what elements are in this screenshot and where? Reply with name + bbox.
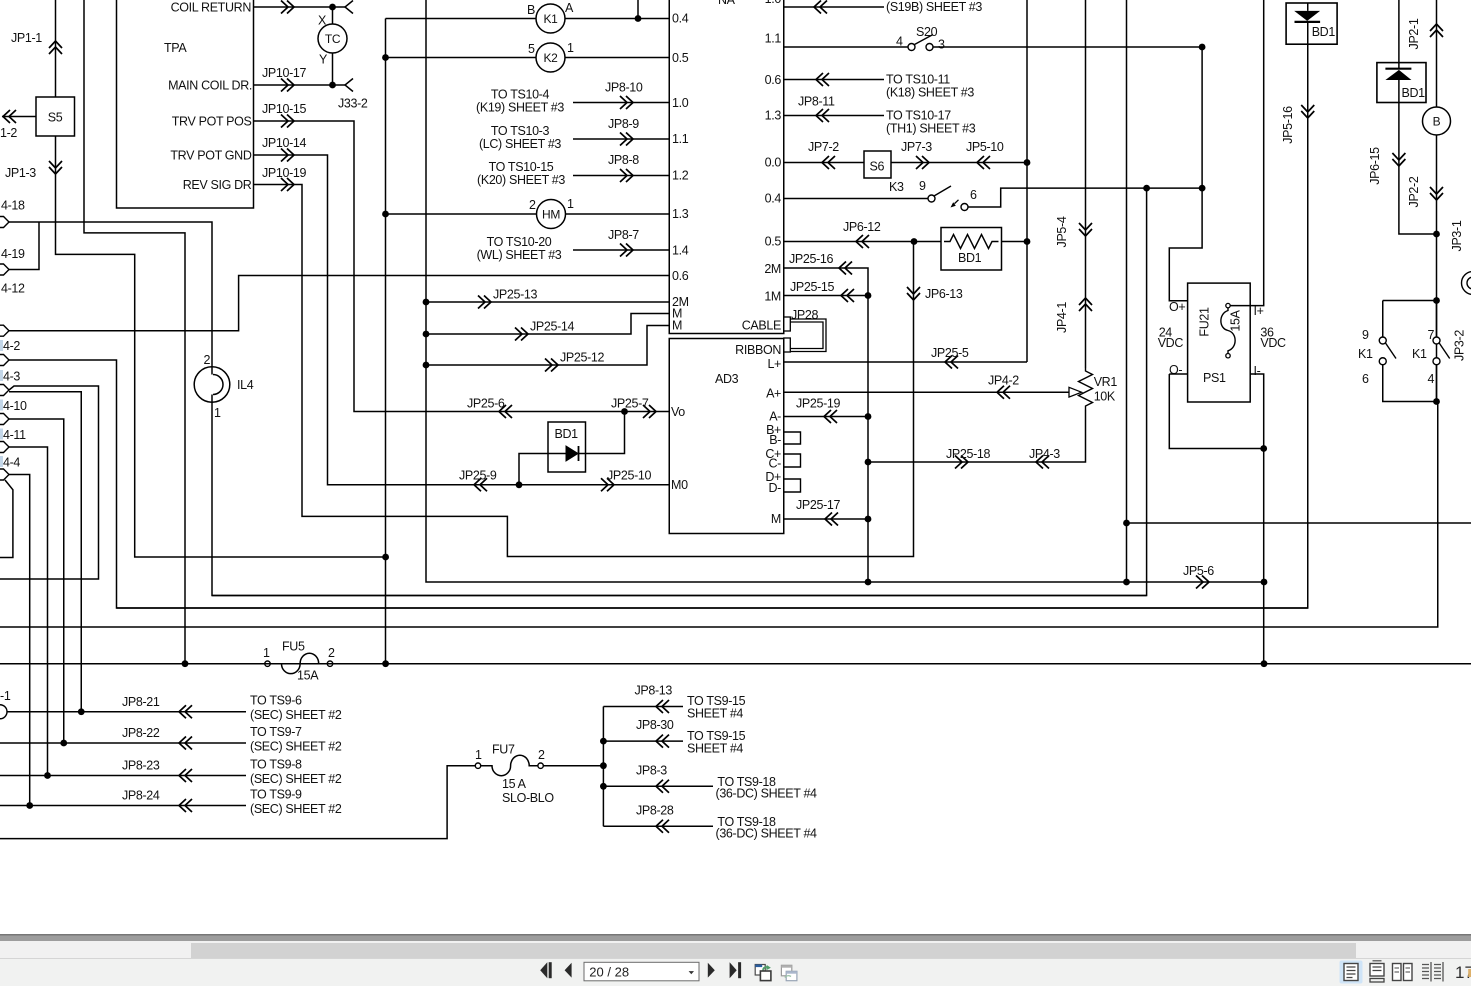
wire I+ to 36V line <box>1230 0 1264 306</box>
warning fragment <box>1468 969 1471 977</box>
svg-text:B: B <box>527 3 535 17</box>
svg-text:BD1: BD1 <box>555 427 579 441</box>
connector JP28 cable <box>784 317 826 352</box>
connector arrow S19B row <box>814 1 827 14</box>
wire bus 523 row <box>1127 522 1471 524</box>
node bus 523 junction <box>1123 520 1130 527</box>
wire 4-18 net to IL4 and K3 bus <box>9 222 212 367</box>
connector arrow JP4-2 <box>997 386 1010 399</box>
wire JP8-3 row <box>603 785 713 787</box>
switch S5 box <box>36 97 75 136</box>
layout icon two pages <box>1393 964 1413 981</box>
svg-text:M0: M0 <box>671 478 688 492</box>
svg-text:FU5: FU5 <box>282 640 305 654</box>
wire O- stub <box>1169 373 1187 375</box>
wire row 0.5 to BD1 resistor <box>784 241 941 243</box>
wire row 2M JP25-16 <box>784 268 868 296</box>
connector arrow JP25-13 <box>478 296 491 309</box>
node K1 top junction <box>635 15 642 22</box>
connector pin 4-2 <box>0 325 9 336</box>
connector pin 4-4 <box>0 442 9 453</box>
component B circle <box>1423 107 1451 135</box>
svg-text:1: 1 <box>214 406 221 420</box>
svg-text:X: X <box>318 14 327 28</box>
svg-text:1.1: 1.1 <box>765 32 782 46</box>
switch S20 <box>908 35 933 51</box>
connector arrow JP1-2 <box>3 110 16 123</box>
svg-text:M: M <box>672 319 682 333</box>
wire JP8 block vertical <box>602 707 604 827</box>
svg-text:HM: HM <box>542 207 560 221</box>
wire JP3 ladder vertical <box>1436 234 1438 402</box>
wire 4-3 net to JP5-16 bus <box>9 44 1308 608</box>
lamp IL4 <box>194 367 230 403</box>
wire BD1 left leg <box>519 454 548 485</box>
connector pin 4-11 <box>0 414 9 425</box>
svg-text:0.4: 0.4 <box>672 12 689 26</box>
wire 4-19 bridge to 4-18 <box>9 222 39 270</box>
svg-text:(SEC) SHEET #2: (SEC) SHEET #2 <box>250 740 342 754</box>
wire row 0.0 to S6 <box>784 162 864 164</box>
node JP25-19 junction <box>865 413 872 420</box>
svg-text:K1: K1 <box>1412 347 1427 361</box>
svg-text:0.0: 0.0 <box>765 156 782 170</box>
svg-text:JP5-6: JP5-6 <box>1183 564 1214 578</box>
svg-text:JP8-22: JP8-22 <box>122 726 160 740</box>
wire vertical 1126 line <box>1126 0 1128 582</box>
node JP8-24 junction <box>26 802 33 809</box>
svg-text:S6: S6 <box>870 160 885 174</box>
svg-text:VDC: VDC <box>1158 336 1184 350</box>
connector arrow JP25-10 <box>601 478 614 491</box>
svg-text:S5: S5 <box>48 111 63 125</box>
connector arrow JP5-4 <box>1079 223 1092 236</box>
svg-text:JP25-17: JP25-17 <box>796 498 841 512</box>
node HM row junction <box>382 211 389 218</box>
connector arrow JP25-9 <box>474 478 487 491</box>
node FU5 bus left junction <box>182 660 189 667</box>
wire row 0.6 TS10-11 <box>784 79 884 81</box>
svg-text:(TH1) SHEET #3: (TH1) SHEET #3 <box>886 122 976 136</box>
node JP25-14 junction <box>423 331 430 338</box>
svg-text:D-: D- <box>769 481 782 495</box>
node S5-bus junction at K-line <box>382 554 389 561</box>
svg-text:1.2: 1.2 <box>672 169 689 183</box>
svg-text:JP3-2: JP3-2 <box>1453 330 1467 361</box>
toolbar previous page button <box>565 963 572 978</box>
svg-text:K2: K2 <box>544 51 559 65</box>
svg-text:(36-DC) SHEET #4: (36-DC) SHEET #4 <box>716 827 818 841</box>
svg-text:JP10-19: JP10-19 <box>262 166 307 180</box>
connector arrow JP8-22 <box>179 737 192 750</box>
node K1 ladder top <box>1433 297 1440 304</box>
svg-text:JP5-16: JP5-16 <box>1281 106 1295 144</box>
wire JP25-18 row to VR1 bottom <box>868 410 1086 463</box>
connector arrow JP25-6 <box>499 405 512 418</box>
svg-text:(WL) SHEET #3: (WL) SHEET #3 <box>477 248 562 262</box>
svg-text:JP25-9: JP25-9 <box>459 469 497 483</box>
svg-text:4-19: 4-19 <box>1 247 25 261</box>
svg-text:TO TS10-17: TO TS10-17 <box>886 109 951 123</box>
svg-text:O-: O- <box>1169 363 1182 377</box>
svg-text:FU21: FU21 <box>1198 307 1212 337</box>
svg-text:7: 7 <box>1428 328 1435 342</box>
wire bus to K1 contacts <box>0 402 1438 628</box>
svg-text:TO TS10-15: TO TS10-15 <box>489 160 554 174</box>
svg-text:(SEC) SHEET #2: (SEC) SHEET #2 <box>250 772 342 786</box>
diode BD1 small box <box>548 422 586 472</box>
wire row 1.2 JP8-8 <box>573 175 669 177</box>
svg-text:B-: B- <box>769 433 781 447</box>
connector pin 4-18 <box>0 217 9 228</box>
svg-text:TO TS10-20: TO TS10-20 <box>487 235 552 249</box>
connector arrow JP25-18 <box>955 456 968 469</box>
wire JP2-1 line <box>1436 0 1438 107</box>
connector arrow JP5-16 <box>1301 105 1314 118</box>
connector arrow JP25-7 <box>643 405 656 418</box>
wire L+ row JP25-5 <box>784 361 1027 363</box>
wire 4-2 to box row 0.6 <box>9 276 669 331</box>
svg-text:JP10-15: JP10-15 <box>262 102 307 116</box>
wire K1 to box <box>565 18 669 20</box>
svg-text:JP5-4: JP5-4 <box>1055 216 1069 247</box>
wire JP2 line to O+ <box>1169 47 1202 301</box>
wire bus K3 branch <box>212 595 1147 597</box>
connector pin -1 circle <box>0 705 7 719</box>
connector arrow JP8-24 <box>179 799 192 812</box>
svg-text:JP8-7: JP8-7 <box>608 228 639 242</box>
svg-text:JP25-12: JP25-12 <box>560 351 605 365</box>
svg-text:SHEET #4: SHEET #4 <box>687 707 743 721</box>
svg-text:JP10-17: JP10-17 <box>262 66 307 80</box>
svg-text:JP25-7: JP25-7 <box>611 397 649 411</box>
svg-text:20 / 28: 20 / 28 <box>589 965 629 980</box>
wire row 0.4 to K3 <box>784 198 928 200</box>
svg-text:0.5: 0.5 <box>672 51 689 65</box>
wire main left vertical bus <box>385 19 387 664</box>
layout icon continuous <box>1370 961 1384 982</box>
wire B to JP2-2 <box>1436 135 1438 234</box>
svg-text:JP7-3: JP7-3 <box>901 140 932 154</box>
connector arrow JP6-13 <box>907 287 920 300</box>
node FU5 bus mid junction <box>382 660 389 667</box>
node TC Y junction <box>329 82 336 89</box>
relay contact K1 right <box>1433 337 1450 365</box>
wire 4-10 upper branch exits left <box>0 386 99 579</box>
svg-text:15A: 15A <box>297 669 319 683</box>
svg-text:(K19) SHEET #3: (K19) SHEET #3 <box>476 101 564 115</box>
svg-text:(SEC) SHEET #2: (SEC) SHEET #2 <box>250 708 342 722</box>
fuse FU7 <box>475 755 543 776</box>
svg-text:Vo: Vo <box>671 405 685 419</box>
wire TC Y lead <box>332 53 334 85</box>
svg-text:4-18: 4-18 <box>1 199 25 213</box>
connector arrow JP10-17 <box>281 79 294 92</box>
connector J33 pin chevron top <box>345 1 353 14</box>
node JP25-18 junction <box>865 459 872 466</box>
svg-text:10K: 10K <box>1094 390 1116 404</box>
svg-text:9: 9 <box>1362 328 1369 342</box>
svg-text:2: 2 <box>328 646 335 660</box>
svg-text:IL4: IL4 <box>237 378 254 392</box>
node JP8-30 junction <box>600 738 607 745</box>
wire TRV POT POS net to JP25-6 row <box>254 121 670 412</box>
jumper C+ C- <box>784 454 801 467</box>
wire O- down to I- node <box>1169 374 1263 449</box>
connector arrow JP25-5 <box>945 356 958 369</box>
svg-text:JP8-13: JP8-13 <box>635 684 673 698</box>
wire S5 to JP1-2 <box>2 116 36 118</box>
wire JP8-24 row <box>0 805 246 807</box>
component TC coil <box>318 24 347 53</box>
svg-text:JP25-18: JP25-18 <box>946 447 991 461</box>
toolbar previous view icon <box>755 965 771 981</box>
node BD1 diode branch <box>516 481 523 488</box>
scrollbar track <box>0 941 1471 958</box>
svg-text:JP25-13: JP25-13 <box>493 288 538 302</box>
svg-text:JP28: JP28 <box>791 308 818 322</box>
wire S20 row left <box>784 46 908 48</box>
svg-text:1.1: 1.1 <box>672 132 689 146</box>
svg-text:4-4: 4-4 <box>3 456 20 470</box>
toolbar background <box>0 958 1471 986</box>
wire FU7 feed <box>0 766 475 839</box>
wire HM row <box>386 213 537 215</box>
svg-text:BD1: BD1 <box>1312 25 1336 39</box>
power supply PS1 box <box>1188 283 1251 402</box>
node FU5 bus right junction <box>1261 660 1268 667</box>
svg-text:BD1: BD1 <box>1402 86 1426 100</box>
svg-text:4-3: 4-3 <box>3 370 20 384</box>
node JP25-15 junction <box>865 292 872 299</box>
svg-text:JP2-2: JP2-2 <box>1407 176 1421 207</box>
wire JP6-15 above BD1 <box>1398 0 1400 63</box>
svg-text:JP7-2: JP7-2 <box>808 140 839 154</box>
svg-text:REV SIG DR: REV SIG DR <box>183 178 252 192</box>
svg-text:1.0: 1.0 <box>765 0 782 6</box>
svg-text:AD3: AD3 <box>715 372 739 386</box>
connector arrow JP10-19 <box>281 178 294 191</box>
svg-text:2M: 2M <box>764 262 781 276</box>
resistor BD1 box <box>941 228 1002 271</box>
svg-text:JP6-15: JP6-15 <box>1368 147 1382 185</box>
svg-text:K3: K3 <box>889 180 904 194</box>
node JP8-23 junction <box>44 772 51 779</box>
svg-text:0.6: 0.6 <box>765 73 782 87</box>
wire JP5-10 vertical to L+ <box>1026 0 1028 362</box>
svg-text:TC: TC <box>325 32 341 46</box>
svg-text:RIBBON: RIBBON <box>735 343 781 357</box>
highlight sliver 4-3 <box>0 370 3 381</box>
svg-text:I-: I- <box>1254 364 1261 378</box>
svg-text:A: A <box>565 1 574 15</box>
svg-text:JP10-14: JP10-14 <box>262 136 307 150</box>
node FU7 junction <box>600 762 607 769</box>
svg-text:9: 9 <box>919 179 926 193</box>
connector arrow JP25-17 <box>825 513 838 526</box>
switch K3 contact <box>928 186 968 211</box>
svg-text:JP8-9: JP8-9 <box>608 117 639 131</box>
svg-text:2: 2 <box>204 353 211 367</box>
fuse FU21 <box>1221 303 1235 358</box>
connector arrow JP6-15 <box>1392 153 1405 166</box>
svg-text:4-11: 4-11 <box>3 428 26 442</box>
svg-text:JP8-10: JP8-10 <box>605 81 643 95</box>
wire COIL RETURN to J33 <box>254 6 346 8</box>
connector arrow JP8-13 <box>656 700 669 713</box>
svg-text:6: 6 <box>970 188 977 202</box>
connector arrow TS10-11 <box>816 73 829 86</box>
wire JP25-14 row <box>426 314 669 335</box>
svg-text:(S19B) SHEET #3: (S19B) SHEET #3 <box>886 0 982 14</box>
svg-text:15A: 15A <box>1229 309 1243 331</box>
connector arrow JP5-6 <box>1196 576 1209 589</box>
svg-text:0.6: 0.6 <box>672 269 689 283</box>
wire lower pin to JP8-24 <box>9 475 30 806</box>
wire JP25 right vertical <box>867 296 869 583</box>
component TPA box <box>117 0 254 208</box>
svg-text:Y: Y <box>319 53 328 67</box>
svg-text:1: 1 <box>263 646 270 660</box>
svg-text:5: 5 <box>528 42 535 56</box>
toolbar dropdown arrow <box>689 971 694 974</box>
wire JP25 vertical bus <box>426 0 1264 582</box>
node JP5-6 left junction <box>1123 579 1130 586</box>
wire A- row JP25-19 <box>784 416 868 418</box>
wire x84 line to FU5 bus <box>84 0 185 664</box>
svg-text:3: 3 <box>938 38 945 52</box>
wire S6 to JP5-10 junction <box>891 162 1027 164</box>
highlight sliver 4-10 <box>0 400 3 411</box>
svg-text:JP25-15: JP25-15 <box>790 280 835 294</box>
svg-text:JP4-3: JP4-3 <box>1029 447 1060 461</box>
wire row 1.1 JP8-9 <box>573 138 669 140</box>
svg-text:4-10: 4-10 <box>3 399 27 413</box>
connector arrow JP8-21 <box>179 705 192 718</box>
wire TC X lead <box>332 7 334 24</box>
toolbar page number field <box>584 962 699 981</box>
svg-text:MAIN COIL DR.: MAIN COIL DR. <box>168 79 252 93</box>
svg-text:A-: A- <box>769 410 781 424</box>
svg-text:SLO-BLO: SLO-BLO <box>502 791 554 805</box>
connector arrow JP8-8 <box>620 169 633 182</box>
jumper D+ D- <box>784 479 801 492</box>
wire bus JP5-16 lower <box>117 607 1308 609</box>
node JP25-17 junction <box>865 516 872 523</box>
svg-text:TO TS10-4: TO TS10-4 <box>491 88 550 102</box>
wire row 1.4 JP8-7 <box>573 249 669 251</box>
svg-text:J33-2: J33-2 <box>338 97 368 111</box>
node K3 wire end <box>1199 185 1206 192</box>
connector arrow JP10-15 <box>281 115 294 128</box>
svg-text:JP8-3: JP8-3 <box>636 764 667 778</box>
svg-text:VR1: VR1 <box>1094 375 1118 389</box>
wire 36V return to FU5 bus <box>1263 449 1265 664</box>
svg-text:JP8-11: JP8-11 <box>798 95 835 109</box>
relay coil K2 <box>536 43 565 72</box>
wire JP1-1 to S5 <box>55 0 57 97</box>
connector J33-2 chevron <box>345 79 353 92</box>
svg-text:JP2-1: JP2-1 <box>1407 18 1421 49</box>
node JP2-2 JP6-15 junction <box>1433 231 1440 238</box>
node JP25-13 junction <box>423 299 430 306</box>
wire BD1 right leg <box>586 412 625 454</box>
connector pin 4-3 <box>0 355 9 366</box>
svg-text:1.0: 1.0 <box>672 96 689 110</box>
node JP8-3 junction <box>600 783 607 790</box>
svg-text:PS1: PS1 <box>1203 371 1226 385</box>
svg-text:0.4: 0.4 <box>765 192 782 206</box>
wire bus FU5 row <box>0 663 1471 665</box>
svg-text:L+: L+ <box>767 357 781 371</box>
wire A+ row JP4-2 to VR1 wiper <box>784 391 1069 393</box>
svg-text:TPA: TPA <box>164 41 187 55</box>
svg-text:M: M <box>771 512 781 526</box>
wire K1 row <box>386 18 537 20</box>
toolbar next page button <box>708 963 715 978</box>
connector arrow JP25-12 <box>545 359 558 372</box>
wire row 1M JP25-15 <box>784 295 868 297</box>
wire 4-11 to JP8-22 <box>9 419 64 743</box>
svg-text:JP1-1: JP1-1 <box>11 31 42 45</box>
component interface box <box>669 0 784 334</box>
connector arrow JP8-11 <box>816 109 829 122</box>
svg-text:0.5: 0.5 <box>765 235 782 249</box>
svg-text:VDC: VDC <box>1260 336 1286 350</box>
potentiometer VR1 <box>1069 368 1093 410</box>
layout icon two page continuous <box>1422 962 1443 982</box>
wire JP25-12 row <box>426 326 669 366</box>
svg-text:C-: C- <box>769 457 782 471</box>
svg-text:(36-DC) SHEET #4: (36-DC) SHEET #4 <box>716 787 818 801</box>
connector arrow JP1-3 <box>49 161 62 174</box>
svg-text:NA: NA <box>718 0 736 7</box>
diode BD1 upper box <box>1286 3 1337 44</box>
wire JP8-30 row <box>603 740 683 742</box>
connector arrow JP8-9 <box>620 133 633 146</box>
connector arrow JP2-1 <box>1430 24 1443 37</box>
svg-text:JP1-3: JP1-3 <box>5 166 36 180</box>
connector arrow JP8-10 <box>620 96 633 109</box>
node JP8-22 junction <box>60 740 67 747</box>
svg-text:JP25-19: JP25-19 <box>796 397 841 411</box>
svg-text:JP8-23: JP8-23 <box>122 759 160 773</box>
node JP6-13 branch <box>911 238 918 245</box>
svg-text:O+: O+ <box>1169 300 1185 314</box>
svg-text:JP25-10: JP25-10 <box>607 469 652 483</box>
svg-text:4-2: 4-2 <box>3 339 20 353</box>
connector arrow JP25-14 <box>515 328 528 341</box>
svg-text:JP8-24: JP8-24 <box>122 789 160 803</box>
fuse FU5 <box>265 653 333 673</box>
svg-text:2: 2 <box>538 748 545 762</box>
svg-text:JP25-14: JP25-14 <box>530 320 575 334</box>
wire MAIN COIL DR to J33-2 <box>254 84 346 86</box>
svg-text:1M: 1M <box>764 290 781 304</box>
wire K1 contact left top <box>1382 301 1384 338</box>
wire 4-4 to JP8-23 <box>9 447 48 776</box>
svg-text:(LC) SHEET #3: (LC) SHEET #3 <box>479 137 561 151</box>
svg-text:4: 4 <box>1428 372 1435 386</box>
wire JP5-16 below BD1 <box>1307 44 1309 608</box>
svg-text:A+: A+ <box>766 387 781 401</box>
connector arrow JP2-2 <box>1430 187 1443 200</box>
connector arrow JP4-3 <box>1036 456 1049 469</box>
node JP5-10 junction <box>1024 159 1031 166</box>
node O- I- junction <box>1260 445 1267 452</box>
svg-text:TO TS9-6: TO TS9-6 <box>250 694 302 708</box>
scrollbar separator band <box>0 934 1471 941</box>
